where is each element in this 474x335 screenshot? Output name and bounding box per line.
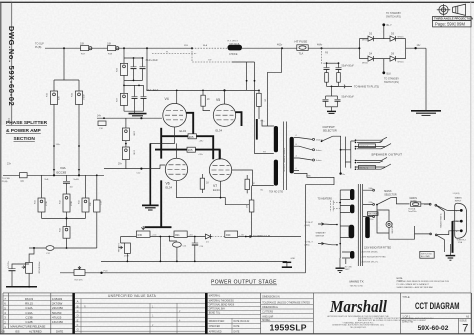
svg-text:R: R — [84, 305, 86, 308]
svg-text:10K: 10K — [107, 42, 112, 45]
selector common wire — [333, 136, 341, 173]
filter caps 32uF+32uF (C5) — [124, 58, 158, 81]
svg-text:10K: 10K — [80, 42, 85, 45]
material / drawn block — [208, 293, 261, 334]
ground below C8 — [327, 107, 336, 114]
svg-text:16H 90mA: 16H 90mA — [229, 42, 240, 45]
svg-text:34+: 34+ — [97, 115, 102, 118]
diode D3 — [362, 32, 374, 41]
svg-text:120V INDICATOR FITTED: 120V INDICATOR FITTED — [364, 246, 391, 249]
bias ground rail — [101, 261, 287, 263]
svg-text:464v: 464v — [317, 43, 323, 46]
power tube V6 EL34 — [165, 158, 187, 189]
standby link SLT — [305, 242, 338, 247]
mains tx ground — [336, 268, 345, 272]
label TO SLP PL — [35, 43, 44, 49]
coupling cap C9 — [20, 173, 28, 183]
svg-text:OUTPUT TRANSFORMER: OUTPUT TRANSFORMER — [283, 147, 286, 172]
svg-text:50uF+50uF: 50uF+50uF — [342, 96, 355, 99]
svg-text:MAINS TX: MAINS TX — [350, 280, 364, 284]
tolerance / model block — [261, 293, 314, 334]
svg-text:SWITCH NO: SWITCH NO — [421, 253, 432, 255]
svg-text:OUTPUT: OUTPUT — [323, 125, 336, 129]
svg-text:EL34: EL34 — [180, 129, 187, 133]
svg-text:25K: 25K — [247, 204, 249, 208]
triode V3B grid node — [74, 174, 81, 181]
svg-text:CHANGE LINKS REMOTE WORKS OFF: CHANGE LINKS REMOTE WORKS OFF FROM THE P… — [397, 280, 450, 283]
svg-text:C12A: C12A — [25, 306, 32, 310]
svg-text:ACROSS DR-M5.: ACROSS DR-M5. — [362, 250, 379, 253]
mains selector taps — [363, 188, 379, 221]
mains fuse — [408, 197, 429, 213]
svg-text:(-E1): (-E1) — [305, 245, 310, 247]
unspecified value data table — [75, 293, 208, 334]
presence cap C14 — [8, 261, 29, 286]
speaker jack J2 — [356, 144, 392, 149]
svg-text:HUM BAL: HUM BAL — [117, 244, 120, 254]
output transformer core — [283, 122, 286, 191]
svg-text:& POWER AMP: & POWER AMP — [6, 128, 42, 134]
thick wire stub into transformer primary top — [256, 119, 258, 140]
svg-text:D6,D3: D6,D3 — [25, 297, 34, 301]
svg-text:POWER OUTPUT STAGE: POWER OUTPUT STAGE — [211, 280, 277, 286]
svg-text:9nB: 9nB — [45, 179, 49, 181]
reservoir cap pair C7 50uF+50uF — [324, 62, 355, 69]
fuse F1 HT FUSE — [295, 40, 309, 56]
jack bus link — [345, 150, 350, 162]
svg-text:50U/50: 50U/50 — [52, 311, 62, 315]
mains input connector — [437, 193, 466, 244]
svg-text:F: F — [77, 323, 79, 327]
svg-text:TO LNK: TO LNK — [345, 266, 353, 268]
rail ground symbol — [282, 258, 296, 267]
svg-text:SWITCH (FS): SWITCH (FS) — [386, 15, 401, 18]
svg-text:SELECTOR: SELECTOR — [384, 194, 397, 196]
svg-text:DRAWN P.JED: DRAWN P.JED — [209, 320, 225, 323]
phase splitter wire — [3, 174, 104, 176]
svg-text:16U/450: 16U/450 — [52, 320, 63, 324]
svg-text:462v: 462v — [277, 43, 283, 46]
output selector label — [323, 125, 337, 133]
svg-text:DATE: DATE — [234, 330, 240, 333]
border: top edge — [0, 1, 474, 3]
standby link SLP — [305, 222, 338, 227]
svg-text:1959SLP: 1959SLP — [270, 322, 307, 332]
svg-text:R21: R21 — [175, 234, 180, 237]
svg-text:125A: 125A — [458, 241, 463, 244]
revision table (left) — [3, 293, 75, 334]
svg-text:10K: 10K — [90, 202, 92, 206]
grid resistor R23 — [122, 141, 134, 169]
border: left edge — [0, 2, 2, 334]
thick bus: V5 plate drop to transformer — [236, 112, 242, 126]
screen feed verticals — [246, 62, 256, 154]
svg-text:23+: 23+ — [7, 162, 12, 165]
svg-text:+-10v: +-10v — [152, 234, 157, 236]
wire dashed drop from node 321 to reservoir caps — [322, 48, 327, 63]
mains tx HT winding — [349, 225, 355, 239]
svg-text:MONO 8: MONO 8 — [360, 146, 369, 148]
bias feed chain wire — [121, 236, 301, 238]
feedback pot R19 — [60, 266, 306, 282]
svg-text:H.T. VECT: H.T. VECT — [228, 41, 239, 43]
power tube V7 EL34 — [209, 159, 231, 192]
third angle projection symbol: cone — [453, 4, 466, 15]
splitter resistor R11 — [35, 175, 49, 218]
chassis ground right — [446, 244, 456, 260]
svg-text:MAINS SW(T3): MAINS SW(T3) — [440, 213, 443, 227]
output selector contacts — [299, 136, 333, 162]
svg-text:THIRD ANGLE PROJECTION: THIRD ANGLE PROJECTION — [434, 17, 473, 21]
svg-text:SWITCH: SWITCH — [316, 235, 325, 237]
svg-text:MAINS: MAINS — [455, 197, 462, 200]
border: right edge (faint scan) — [470, 2, 472, 293]
svg-text:DATE: DATE — [56, 329, 63, 333]
grid feed wires to V4 V5 tops — [177, 90, 225, 104]
svg-text:C: C — [77, 309, 79, 313]
svg-text:32uF+32uF: 32uF+32uF — [146, 59, 159, 62]
svg-text:Twin/250v: Twin/250v — [408, 211, 417, 213]
svg-text:59X-60-02: 59X-60-02 — [418, 325, 449, 332]
svg-text:47U/25: 47U/25 — [52, 316, 62, 320]
transformer primary taps — [232, 120, 274, 192]
note block — [397, 278, 450, 289]
svg-text:470K: 470K — [46, 201, 48, 206]
speaker jack J3 — [356, 157, 388, 162]
output transformer secondary winding — [290, 137, 294, 174]
svg-text:MR501: MR501 — [362, 40, 368, 42]
wire drop from node x64 — [54, 48, 79, 91]
svg-text:EL34: EL34 — [216, 129, 223, 133]
svg-text:470K: 470K — [71, 201, 73, 206]
svg-text:SWITCH (FS): SWITCH (FS) — [384, 81, 399, 84]
resistor R16 — [72, 91, 86, 104]
mains selector arm — [376, 190, 409, 205]
svg-text:GND: GND — [291, 258, 296, 260]
svg-text:MR501: MR501 — [362, 62, 368, 64]
svg-text:MATERIAL: MATERIAL — [209, 295, 221, 298]
svg-text:(+E2): (+E2) — [305, 225, 311, 227]
svg-text:+1B: +1B — [1, 330, 6, 333]
node junction x147 — [146, 47, 148, 49]
resistor R15 — [47, 91, 61, 104]
mains switch — [429, 203, 447, 239]
coupling wire C10 row — [97, 115, 162, 130]
svg-text:V3A: V3A — [60, 166, 66, 170]
filter stage 2: dropper resistor R27 — [117, 80, 144, 111]
svg-text:9n0B: 9n0B — [74, 179, 80, 181]
svg-text:1N5403: 1N5403 — [52, 297, 63, 301]
svg-text:Page: 59X| 09M: Page: 59X| 09M — [435, 22, 465, 27]
svg-text:4u7/25v: 4u7/25v — [8, 261, 10, 268]
output transformer T2 primary windings — [274, 126, 278, 186]
smoothing cap pair C8 50uF+50uF — [323, 86, 355, 106]
svg-text:DIMENSIONAL: DIMENSIONAL — [262, 306, 279, 309]
svg-text:BL.Y: BL.Y — [387, 24, 393, 27]
svg-text:82K: 82K — [59, 96, 61, 100]
svg-text:L1(-E3): L1(-E3) — [453, 193, 460, 195]
wire dashed tap from node 192 — [192, 48, 232, 62]
svg-text:C10A: C10A — [25, 311, 32, 315]
page number box — [433, 21, 472, 27]
neon indicator — [377, 205, 394, 240]
third angle projection symbol: circle — [437, 4, 450, 16]
svg-text:470R: 470R — [124, 255, 129, 257]
standby links: to heaters — [318, 197, 341, 212]
filter stage 1: dropper resistor R26 — [117, 48, 144, 80]
third angle projection label box — [433, 16, 474, 20]
tail resistor R13 — [60, 218, 71, 248]
wire V4 bottom to ground stem — [150, 127, 174, 143]
screen resistor 1K (V5) — [201, 90, 210, 110]
selector arm — [322, 136, 333, 141]
splitter common node — [42, 217, 86, 219]
svg-text:A: A — [77, 300, 79, 304]
wire HT bus left — [45, 47, 192, 49]
presence ground bar — [6, 286, 37, 288]
svg-text:CCT DIAGRAM: CCT DIAGRAM — [415, 301, 460, 311]
wires down from R15 R16 to phase splitter — [54, 104, 79, 175]
hum balance pot — [117, 237, 131, 262]
svg-text:TO MAINS TX JB: TO MAINS TX JB — [253, 235, 271, 238]
to lnk test label — [345, 266, 353, 271]
splitter resistor R14 — [79, 175, 93, 218]
node to mains tx — [331, 85, 379, 89]
svg-text:50uF+50uF: 50uF+50uF — [342, 64, 355, 67]
svg-text:1K: 1K — [206, 181, 209, 184]
svg-text:TO SL.T: TO SL.T — [305, 242, 314, 244]
svg-text:PL(B): PL(B) — [35, 46, 42, 49]
svg-text:7: 7 — [462, 323, 468, 335]
svg-text:BEND TOL: BEND TOL — [209, 312, 221, 314]
svg-text:OPTIONAL B/H: OPTIONAL B/H — [209, 307, 225, 310]
svg-text:TEST: TEST — [345, 269, 351, 271]
mains tx label — [350, 280, 364, 288]
main ground stem — [142, 143, 159, 210]
bias winding wire to mains tx — [246, 235, 271, 238]
svg-text:2K7/5W: 2K7/5W — [52, 302, 63, 306]
presence pot P1 — [22, 248, 40, 287]
svg-text:T1A: T1A — [299, 51, 304, 55]
svg-text:T6X NO 1750: T6X NO 1750 — [350, 285, 364, 287]
cap C13 — [94, 174, 103, 248]
node BLK to standby switch — [382, 59, 399, 84]
svg-text:TITLE: TITLE — [402, 295, 410, 299]
svg-text:MR501: MR501 — [398, 37, 404, 39]
svg-text:MANUFACTURE RELEASE: MANUFACTURE RELEASE — [10, 325, 45, 329]
standby contact column — [336, 190, 341, 258]
svg-text:CHECKED: CHECKED — [209, 326, 221, 328]
mains tx lower leg to test link — [340, 258, 346, 268]
diode D1 — [205, 234, 210, 243]
svg-text:MAINS: MAINS — [410, 197, 418, 200]
node junction at x64 — [63, 47, 65, 49]
wire down to chassis ground — [425, 48, 427, 111]
svg-text:BLA: BLA — [203, 44, 208, 47]
svg-text:DIMENSIONS IN: DIMENSIONS IN — [262, 296, 280, 298]
node junction x321 — [321, 47, 323, 49]
speaker jack J1 — [356, 137, 388, 142]
mains return wires — [377, 204, 445, 252]
svg-text:EL34: EL34 — [166, 186, 173, 190]
svg-text:R29: R29 — [226, 234, 231, 237]
thick bus: left leg V4 to V6 — [160, 128, 162, 159]
svg-text:4ohm: 4ohm — [316, 160, 322, 162]
svg-text:R19 47K: R19 47K — [75, 280, 84, 282]
mains tx heater winding right — [365, 217, 370, 239]
svg-text:270K: 270K — [133, 150, 135, 155]
svg-text:ALLOWAY: ALLOWAY — [421, 255, 431, 258]
svg-text:MAINS: MAINS — [384, 190, 392, 193]
svg-text:T6X NO 1750: T6X NO 1750 — [269, 192, 284, 194]
svg-text:MONO 4: MONO 4 — [360, 168, 369, 170]
svg-text:+10v: +10v — [189, 234, 193, 236]
thick bus: upper grid row with R25 — [161, 134, 213, 159]
bias cap C15 — [160, 237, 187, 262]
svg-text:INDICATOR: INDICATOR — [391, 222, 394, 233]
svg-text:22U/350: 22U/350 — [52, 306, 63, 310]
svg-text:PRESENCE: PRESENCE — [38, 262, 40, 275]
svg-text:TEL (01908)375411: TEL (01908)375411 — [350, 327, 367, 329]
choke L1 — [228, 41, 243, 56]
svg-text:DWG No: DWG No — [402, 319, 413, 323]
svg-text:1 OF 1: 1 OF 1 — [402, 314, 411, 318]
presence network wire — [29, 247, 97, 249]
title block right — [401, 295, 472, 335]
cathode cap C11 — [63, 175, 74, 194]
thick bus: lower grid row with R24 — [155, 147, 220, 159]
mains tx primary winding 2 — [350, 205, 354, 214]
svg-text:NOTE:: NOTE: — [397, 278, 404, 280]
svg-text:APPROVED: APPROVED — [209, 330, 222, 333]
svg-text:DATE 09-04-02: DATE 09-04-02 — [234, 320, 251, 323]
tube cathode return wires — [177, 181, 253, 206]
svg-text:TOLERANCE UNLESS OTHERWISE: TOLERANCE UNLESS OTHERWISE STATED — [262, 302, 310, 305]
svg-text:+-10v: +-10v — [239, 234, 244, 236]
ground bar under filter — [129, 111, 147, 116]
manufacture release row — [1, 325, 64, 334]
svg-text:INPUT: INPUT — [455, 201, 462, 203]
diode D5 — [390, 32, 404, 41]
bias feed tube socket — [0, 0, 1, 1]
svg-text:2-EV INDICATOR FITTED: 2-EV INDICATOR FITTED — [362, 255, 387, 258]
svg-text:TO SL.P: TO SL.P — [305, 222, 314, 224]
tube label V3 ECC83 — [57, 166, 67, 175]
svg-text:PL(A): PL(A) — [2, 180, 8, 183]
triode V3A grid node — [45, 174, 56, 181]
node junction x415.6 — [414, 47, 416, 49]
wire bus after fuse — [308, 47, 359, 49]
filter caps 32uF+32uF (C6) — [124, 85, 159, 111]
svg-text:R9,15: R9,15 — [25, 302, 33, 306]
svg-text:MATERIAL THICKNESS: MATERIAL THICKNESS — [209, 299, 234, 302]
svg-text:OPTIONAL BEND RADII: OPTIONAL BEND RADII — [209, 303, 235, 306]
svg-text:BLK: BLK — [387, 72, 392, 75]
mains tx winding stubs — [340, 190, 350, 258]
svg-text:R30: R30 — [138, 234, 143, 237]
svg-text:DWG.No. 59X-60-02: DWG.No. 59X-60-02 — [7, 26, 16, 106]
svg-text:CHOKE: CHOKE — [229, 53, 238, 56]
svg-text:TO PRE: TO PRE — [2, 178, 11, 180]
speaker jack bus — [344, 137, 346, 168]
svg-text:STANDBY: STANDBY — [316, 231, 327, 234]
svg-text:TO MAINS TX PL (T5): TO MAINS TX PL (T5) — [354, 86, 379, 89]
HT rail to screens — [147, 48, 259, 90]
cathode resistor 1K right of V7 — [245, 175, 255, 193]
resistor R17 on bus — [80, 42, 92, 55]
standby switch label — [316, 231, 327, 237]
svg-text:V4: V4 — [165, 97, 169, 101]
svg-text:UNSPECIFIED VALUE DATA: UNSPECIFIED VALUE DATA — [108, 294, 157, 298]
scan shading left strip — [0, 0, 12, 125]
feedback resistor 25K — [247, 186, 254, 237]
bias resistor R29 — [225, 231, 244, 237]
mains tx primary winding 1 — [350, 189, 354, 200]
svg-text:G: G — [77, 328, 79, 332]
svg-text:GND: GND — [306, 176, 311, 178]
svg-text:MR501: MR501 — [398, 61, 404, 63]
svg-text:D: D — [77, 314, 79, 318]
node junction x282 — [281, 47, 283, 49]
coupling wire C12 row — [104, 162, 165, 174]
rectifier bridge rails — [358, 39, 426, 59]
svg-text:C13B: C13B — [25, 316, 32, 320]
svg-text:PO LNK+ SPARE SET & DATA MUT: PO LNK+ SPARE SET & DATA MUT — [397, 283, 430, 286]
svg-text:PHASE SPLITTER: PHASE SPLITTER — [6, 120, 48, 126]
svg-text:E: E — [77, 318, 79, 322]
speaker jack feed column — [351, 139, 357, 170]
svg-text:SELECTOR: SELECTOR — [323, 128, 337, 132]
screen resistor 1K (V5 right) — [257, 90, 266, 119]
bias cap C16 — [192, 237, 204, 262]
power tube V4 EL34 — [163, 97, 187, 133]
earth lead thick — [452, 221, 454, 253]
svg-text:31B: 31B — [184, 45, 188, 47]
node junction x192 — [191, 47, 193, 49]
svg-text:C12B: C12B — [25, 320, 32, 324]
svg-text:DATE: DATE — [234, 325, 240, 328]
bias pot R30 — [136, 226, 156, 237]
power tube V5 EL34 — [213, 98, 235, 133]
input label from preamp — [2, 178, 11, 183]
indicator notes — [362, 250, 387, 263]
bleed resistors R7 R8 — [325, 69, 341, 86]
svg-text:ISS: ISS — [15, 329, 20, 333]
splitter resistor R12 — [60, 194, 74, 218]
svg-text:SECTION: SECTION — [14, 136, 36, 142]
scan shading bottom edge — [0, 330, 474, 335]
cathode resistor 1K between V6 V7 — [200, 174, 209, 193]
svg-text:ALTERED: ALTERED — [29, 329, 42, 333]
title area top rule — [3, 292, 471, 294]
transformer secondary taps — [294, 135, 299, 170]
resistor R18 on bus — [107, 42, 119, 55]
svg-text:HT+: HT+ — [261, 120, 266, 122]
svg-text:TO HEATERS: TO HEATERS — [318, 197, 333, 200]
section label PHASE SPLITTER — [6, 120, 48, 142]
wire bus after choke — [242, 47, 297, 49]
svg-text:SHIELD MARKED = ARE SET BUS BA: SHIELD MARKED = ARE SET BUS BAR — [397, 286, 434, 289]
grid resistor R22 — [122, 118, 134, 140]
wire V6 V7 links — [177, 143, 221, 158]
speaker jack J4 — [356, 164, 392, 170]
bias tap jack — [0, 0, 1, 1]
marshall logo block — [327, 293, 434, 334]
diode D4 — [362, 52, 374, 64]
svg-text:8ohm: 8ohm — [316, 150, 322, 152]
svg-text:1K: 1K — [207, 98, 210, 101]
svg-text:29+: 29+ — [118, 162, 123, 165]
